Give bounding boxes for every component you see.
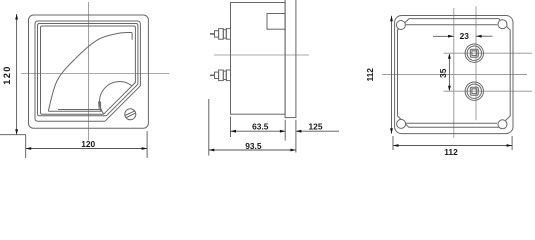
centerline horizontal rear view: [382, 73, 527, 75]
side flange: [285, 0, 296, 118]
side body: [231, 3, 286, 115]
side extension lines: [209, 99, 296, 156]
rear left dimension 112: [391, 16, 393, 134]
rear bottom extension lines: [393, 136, 512, 150]
rear terminal 1: [465, 44, 483, 62]
terminal crosshair line 2: [444, 90, 532, 92]
centerline vertical rear view: [453, 8, 455, 138]
dial plate line 2: [48, 110, 101, 112]
front bezel rect3 with chamfered bottom-right corner: [38, 24, 138, 116]
zero adjust screw: [125, 109, 136, 120]
front bezel rect2 with chamfered bottom-right corner: [35, 21, 140, 121]
centerline horizontal front view: [21, 73, 170, 75]
side dimension 12.5 flange leader: [296, 130, 339, 132]
front left dimension 120: [16, 14, 18, 135]
rear dimension 23: [433, 35, 493, 37]
front bottom extension lines: [26, 131, 147, 158]
front bottom dimension 120: [26, 148, 147, 150]
centerline horizontal side view: [214, 54, 309, 56]
centerline vertical front view: [88, 2, 90, 141]
terminal stud 2: [210, 70, 231, 81]
front outer bezel: [29, 15, 149, 128]
pointer tail: [99, 102, 101, 112]
rear clamp band line top: [406, 24, 498, 26]
svg-text:112: 112: [444, 147, 458, 157]
side dimension 63.5: [231, 130, 286, 132]
terminal crosshair line 1: [444, 52, 532, 54]
rear outer case: [395, 16, 513, 134]
rear corner screw top-left: [396, 21, 405, 30]
front dial window rect4 with chamfered bottom-right corner: [41, 26, 136, 114]
rear terminal 2: [465, 82, 483, 100]
rear bottom dimension 112: [393, 145, 512, 147]
terminal stud 1: [210, 29, 231, 40]
rear corner screw bottom-left: [397, 119, 406, 128]
svg-text:63.5: 63.5: [252, 122, 269, 132]
rear corner screw bottom-right: [498, 120, 507, 129]
terminal column vertical line: [475, 6, 477, 120]
rear inner case with chamfered corners: [398, 19, 511, 128]
svg-text:120: 120: [2, 65, 12, 85]
rear clamp band line bottom: [406, 122, 498, 124]
side dimension 93.5: [209, 149, 296, 151]
front bottom-left extension line: [0, 134, 26, 136]
pivot boss arc: [99, 82, 131, 114]
svg-text:112: 112: [365, 68, 375, 82]
scale arc: [48, 33, 132, 112]
scale arc end tick: [131, 33, 133, 40]
side clamp block: [267, 14, 285, 30]
svg-text:93.5: 93.5: [245, 141, 262, 151]
rear dimension 35: [448, 54, 450, 90]
svg-text:23: 23: [460, 31, 470, 41]
svg-text:120: 120: [81, 139, 95, 149]
svg-text:125: 125: [309, 122, 323, 132]
rear corner screw top-right: [498, 20, 507, 29]
svg-text:35: 35: [438, 68, 448, 78]
dial plate line 1: [58, 109, 101, 111]
